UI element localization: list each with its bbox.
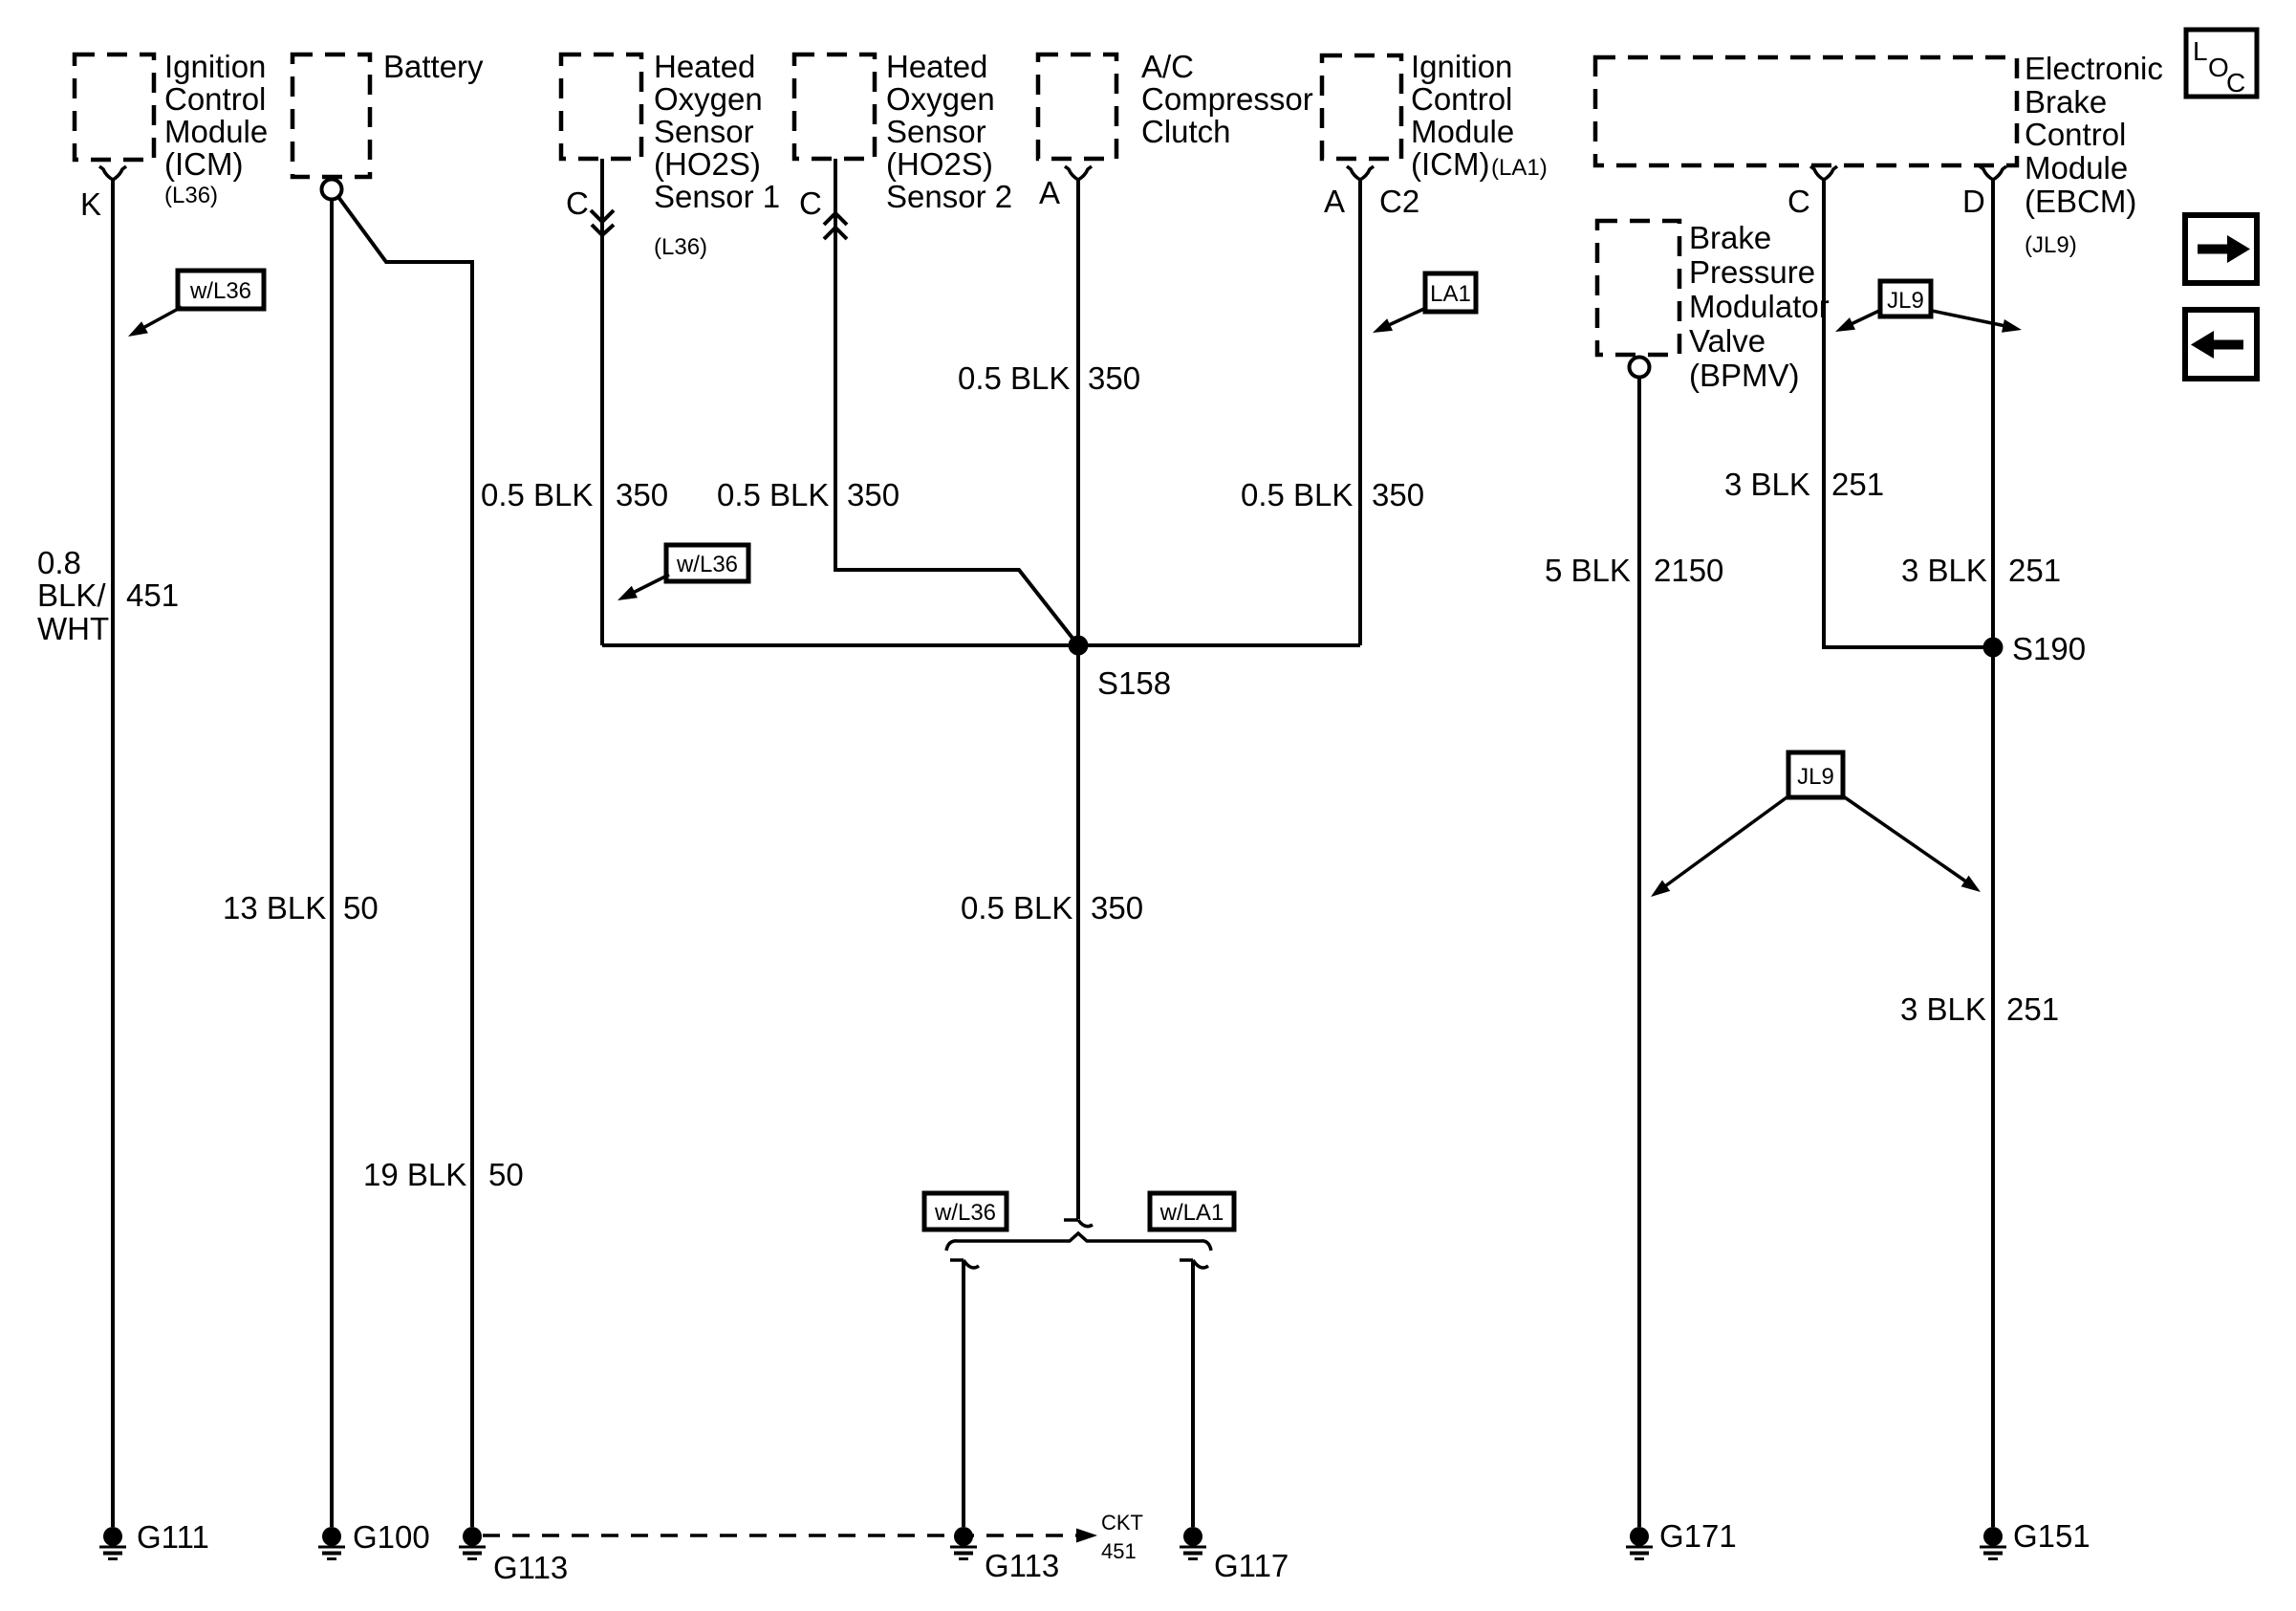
svg-text:Sensor 1: Sensor 1	[654, 179, 780, 214]
legend arrow right box	[2185, 215, 2257, 283]
connector Y at EBCM pin D	[1980, 166, 2006, 180]
svg-text:G111: G111	[137, 1519, 209, 1555]
out-of-page chevrons on HO2S1 wire	[591, 210, 614, 235]
svg-text:0.5 BLK: 0.5 BLK	[958, 360, 1070, 396]
legend arrow left box	[2185, 310, 2257, 379]
svg-text:G113: G113	[493, 1550, 568, 1585]
svg-text:0.5 BLK: 0.5 BLK	[1241, 477, 1353, 512]
option tag JL9 upper with arrows	[1835, 281, 2022, 333]
wire HO2S1 C to S158 circuit 350	[600, 159, 604, 645]
svg-text:0.8: 0.8	[37, 545, 81, 580]
LOC legend symbol	[2186, 30, 2257, 98]
wire label 0.5 BLK 350 HO2S1	[481, 477, 668, 512]
svg-text:Module: Module	[164, 114, 268, 149]
svg-text:WHT: WHT	[37, 611, 109, 646]
heated oxygen sensor HO2S sensor 1 box	[561, 49, 780, 260]
option tag LA1 with arrow	[1373, 273, 1476, 333]
svg-text:D: D	[1962, 184, 1985, 219]
svg-text:(HO2S): (HO2S)	[886, 146, 993, 182]
wire BPMV to G171 circuit 2150	[1637, 378, 1641, 1527]
svg-text:(HO2S): (HO2S)	[654, 146, 761, 182]
svg-text:Heated: Heated	[886, 49, 987, 84]
svg-text:Control: Control	[1411, 81, 1512, 117]
svg-text:451: 451	[126, 577, 179, 613]
svg-text:451: 451	[1101, 1539, 1137, 1563]
option tag w/L36 at splice option	[924, 1193, 1007, 1230]
svg-text:CKT: CKT	[1101, 1511, 1143, 1535]
svg-text:Oxygen: Oxygen	[886, 81, 995, 117]
svg-text:Brake: Brake	[2025, 84, 2107, 120]
ignition control module ICM (L36) box	[75, 49, 268, 208]
option tag JL9 lower with arrows	[1651, 752, 1981, 897]
svg-text:S158: S158	[1097, 665, 1171, 701]
option tag w/LA1 at splice option	[1150, 1193, 1234, 1230]
branch hook w/LA1	[1180, 1260, 1208, 1268]
svg-text:350: 350	[1091, 890, 1143, 925]
dashed ground tie G113 to CKT 451	[483, 1534, 1076, 1537]
wire battery to G113 circuit 50	[338, 197, 472, 1527]
svg-text:Modulator: Modulator	[1689, 289, 1830, 324]
svg-text:Heated: Heated	[654, 49, 755, 84]
wire EBCM C to S190 circuit 251	[1824, 178, 1993, 647]
svg-text:50: 50	[343, 890, 379, 925]
svg-text:Module: Module	[2025, 150, 2128, 185]
option tag w/L36 middle with arrow	[617, 545, 748, 600]
svg-text:(ICM): (ICM)	[164, 146, 243, 182]
svg-text:Oxygen: Oxygen	[654, 81, 763, 117]
svg-text:251: 251	[2008, 553, 2061, 588]
wire branch w/L36 to G113	[962, 1260, 965, 1527]
svg-text:JL9: JL9	[1797, 764, 1834, 790]
svg-text:L: L	[2193, 36, 2208, 66]
wire label 3 BLK 251 EBCM D lower	[1900, 991, 2059, 1027]
svg-text:w/L36: w/L36	[676, 552, 738, 577]
svg-text:(EBCM): (EBCM)	[2025, 184, 2136, 219]
brake pressure modulator valve BPMV box	[1597, 220, 1830, 393]
svg-text:Compressor: Compressor	[1141, 81, 1313, 117]
svg-text:C2: C2	[1379, 184, 1419, 219]
connector Y at ICM pin K	[99, 166, 126, 180]
svg-text:LA1: LA1	[1430, 281, 1471, 307]
svg-text:50: 50	[488, 1157, 524, 1192]
svg-text:Electronic: Electronic	[2025, 51, 2163, 86]
svg-text:G113: G113	[985, 1548, 1059, 1583]
svg-text:(L36): (L36)	[654, 234, 707, 260]
svg-text:Brake: Brake	[1689, 220, 1771, 255]
ground G111	[99, 1519, 209, 1559]
splice S190	[1983, 638, 2004, 658]
A/C compressor clutch box	[1038, 49, 1313, 159]
svg-text:Clutch: Clutch	[1141, 114, 1231, 149]
wire ICM LA1 A to S158 circuit 350	[1358, 180, 1362, 645]
svg-text:350: 350	[616, 477, 668, 512]
svg-text:3 BLK: 3 BLK	[1724, 467, 1810, 502]
svg-text:(BPMV): (BPMV)	[1689, 358, 1800, 393]
svg-text:Pressure: Pressure	[1689, 254, 1815, 290]
svg-text:0.5 BLK: 0.5 BLK	[961, 890, 1072, 925]
heated oxygen sensor HO2S sensor 2 box	[794, 49, 1012, 214]
wire label 0.5 BLK 350 A/C	[958, 360, 1140, 396]
svg-text:JL9: JL9	[1887, 288, 1924, 314]
svg-text:S190: S190	[2012, 631, 2086, 666]
svg-text:C: C	[1787, 184, 1810, 219]
svg-text:(LA1): (LA1)	[1491, 155, 1548, 181]
svg-text:13 BLK: 13 BLK	[223, 890, 326, 925]
wire label 5 BLK 2150	[1545, 553, 1723, 588]
ground G113 center	[950, 1527, 1059, 1583]
svg-text:Sensor: Sensor	[886, 114, 986, 149]
svg-text:G100: G100	[353, 1519, 430, 1555]
wire label 19 BLK 50	[363, 1157, 524, 1192]
wire branch w/LA1 to G117	[1191, 1260, 1195, 1527]
splice S158	[1069, 636, 1089, 656]
wire ICM K to G111 circuit 451	[111, 180, 115, 1527]
wire label 0.5 BLK 350 HO2S2	[717, 477, 899, 512]
wire label 0.5 BLK 350 below S158	[961, 890, 1143, 925]
wire ground bus S158 horizontal	[602, 643, 1360, 647]
svg-text:251: 251	[1831, 467, 1884, 502]
svg-text:(L36): (L36)	[164, 183, 218, 208]
BPMV ring terminal	[1630, 358, 1650, 378]
option tag w/L36 upper with arrow	[128, 271, 264, 337]
wire battery to G100 circuit 50	[330, 200, 334, 1527]
wire EBCM D to G151 circuit 251	[1991, 178, 1995, 1527]
svg-text:5 BLK: 5 BLK	[1545, 553, 1631, 588]
wire A/C clutch A to S158 and splice option circuit 350	[1076, 180, 1080, 1219]
svg-text:K: K	[80, 186, 101, 222]
svg-text:Ignition: Ignition	[164, 49, 266, 84]
svg-text:(JL9): (JL9)	[2025, 232, 2077, 258]
svg-text:Valve: Valve	[1689, 323, 1765, 359]
connector Y at EBCM pin C	[1810, 166, 1837, 180]
wire label 13 BLK 50	[223, 890, 379, 925]
svg-text:w/L36: w/L36	[189, 278, 251, 304]
out-of-page chevrons on HO2S2 wire	[824, 213, 847, 239]
svg-text:Module: Module	[1411, 114, 1514, 149]
svg-text:251: 251	[2006, 991, 2059, 1027]
ground G117	[1180, 1527, 1289, 1583]
svg-text:C: C	[566, 185, 589, 221]
wire end break at splice option	[1064, 1220, 1093, 1227]
svg-text:w/LA1: w/LA1	[1159, 1200, 1224, 1226]
wire label 3 BLK 251 EBCM C	[1724, 467, 1884, 502]
svg-text:0.5 BLK: 0.5 BLK	[717, 477, 829, 512]
svg-text:3 BLK: 3 BLK	[1900, 991, 1986, 1027]
svg-text:BLK/: BLK/	[37, 577, 106, 613]
ignition control module ICM (LA1) box	[1322, 49, 1548, 182]
wire label 0.8 BLK/WHT 451	[37, 545, 179, 646]
ground G171	[1626, 1518, 1737, 1559]
svg-text:19 BLK: 19 BLK	[363, 1157, 466, 1192]
svg-text:A: A	[1324, 184, 1345, 219]
connector Y at A/C pin A	[1065, 166, 1092, 180]
svg-text:350: 350	[1372, 477, 1424, 512]
svg-text:2150: 2150	[1654, 553, 1723, 588]
branch hook w/L36	[950, 1260, 979, 1268]
svg-text:0.5 BLK: 0.5 BLK	[481, 477, 593, 512]
svg-text:3 BLK: 3 BLK	[1901, 553, 1987, 588]
arrowhead CKT 451	[1076, 1529, 1097, 1543]
svg-text:Sensor: Sensor	[654, 114, 754, 149]
ground G100	[318, 1519, 430, 1559]
svg-text:Battery: Battery	[383, 49, 484, 84]
wire label 3 BLK 251 EBCM D upper	[1901, 553, 2061, 588]
battery ring terminal	[322, 180, 342, 200]
svg-text:w/L36: w/L36	[934, 1200, 996, 1226]
svg-text:Ignition: Ignition	[1411, 49, 1512, 84]
svg-text:G151: G151	[2013, 1518, 2090, 1554]
svg-text:350: 350	[1088, 360, 1140, 396]
wire label 0.5 BLK 350 ICM LA1	[1241, 477, 1424, 512]
svg-text:G117: G117	[1214, 1548, 1289, 1583]
svg-text:Control: Control	[2025, 117, 2126, 152]
splice option brace	[946, 1233, 1211, 1251]
svg-text:A/C: A/C	[1141, 49, 1194, 84]
svg-text:(ICM): (ICM)	[1411, 146, 1489, 182]
svg-text:Sensor 2: Sensor 2	[886, 179, 1012, 214]
ground G151	[1980, 1518, 2090, 1559]
svg-text:A: A	[1039, 175, 1060, 210]
wire HO2S2 C to S158 circuit 350	[835, 159, 1078, 645]
connector Y at ICM LA1 pin A	[1347, 166, 1374, 180]
svg-text:350: 350	[847, 477, 899, 512]
battery box	[292, 49, 484, 177]
svg-text:C: C	[2226, 68, 2245, 98]
electronic brake control module EBCM box	[1595, 51, 2163, 258]
svg-text:Control: Control	[164, 81, 266, 117]
ground G113 left	[459, 1527, 568, 1585]
svg-text:G171: G171	[1659, 1518, 1737, 1554]
svg-text:C: C	[799, 185, 822, 221]
